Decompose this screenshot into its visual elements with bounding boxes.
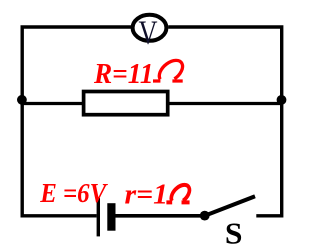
resistor R (R=11 ohm) xyxy=(84,92,168,115)
value label ohm symbol of R xyxy=(153,60,183,81)
svg-text:S: S xyxy=(225,216,243,246)
junction node left xyxy=(17,95,27,105)
battery E: short thick plate (negative) xyxy=(107,203,115,231)
wire battery to switch xyxy=(115,214,205,218)
wire middle branch left xyxy=(22,102,84,105)
svg-text:R=11: R=11 xyxy=(93,58,153,90)
svg-text:V: V xyxy=(139,15,158,52)
wire left loop: top-left, left side, bottom-left xyxy=(22,27,131,216)
value label ohm symbol of r xyxy=(166,185,189,203)
svg-text:r=1: r=1 xyxy=(125,180,169,211)
svg-text:E =6V: E =6V xyxy=(39,177,108,208)
wire right loop: top-right, right side, switch fixed contact xyxy=(168,27,282,216)
battery E: long thin plate (positive) xyxy=(97,198,100,236)
switch S: blade (open) xyxy=(205,196,255,215)
voltmeter V (meter circle) xyxy=(133,15,167,41)
switch S: pivot dot xyxy=(200,211,210,221)
junction node right xyxy=(277,95,287,105)
wire middle branch right xyxy=(167,102,282,105)
